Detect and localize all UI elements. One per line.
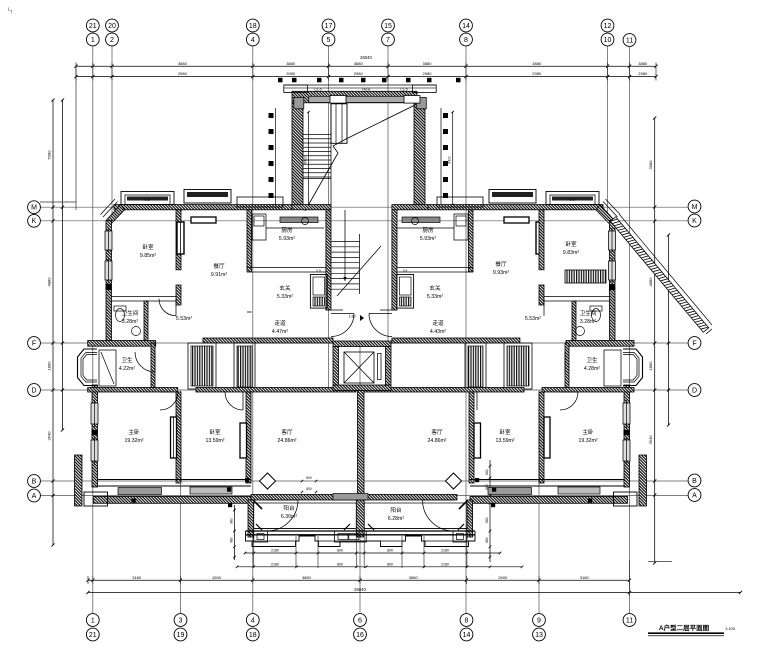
bottom dimension band: [86, 560, 742, 596]
kitchen fixtures left: [252, 214, 324, 240]
room label 5.33m²: [427, 284, 443, 300]
party wall below elevator: [358, 391, 365, 497]
svg-text:21: 21: [89, 23, 97, 30]
room label 13.59m²: [495, 428, 514, 444]
svg-text:F: F: [692, 340, 696, 347]
top dimension band: [74, 55, 657, 210]
wall between living and bed2 right: [469, 392, 481, 483]
svg-text:680: 680: [485, 537, 489, 543]
svg-text:3880: 3880: [354, 61, 364, 66]
svg-text:3880: 3880: [532, 61, 542, 66]
svg-text:M: M: [692, 204, 698, 211]
dining/bedroom divider left: [176, 210, 181, 305]
room label 13.59m²: [205, 428, 224, 444]
svg-text:卫生间: 卫生间: [122, 309, 139, 317]
balcony right: [364, 500, 472, 537]
wardrobe left bedroom: [177, 217, 216, 254]
svg-text:3180: 3180: [580, 575, 590, 580]
svg-text:└┐: └┐: [6, 7, 13, 14]
svg-text:8: 8: [465, 617, 469, 624]
svg-text:D: D: [31, 387, 36, 394]
room label 4.43m²: [430, 319, 446, 335]
closet fixtures left F-D: [188, 343, 255, 390]
svg-text:4.43m²: 4.43m²: [430, 329, 446, 335]
svg-text:D: D: [692, 387, 697, 394]
svg-text:14: 14: [463, 632, 471, 639]
svg-text:F: F: [32, 340, 36, 347]
hall divider left wing: [112, 297, 252, 344]
room label 5.33m²: [277, 284, 293, 300]
window box left kitchen: [237, 197, 318, 223]
svg-text:2980: 2980: [354, 71, 364, 76]
right exterior wall upper: [609, 221, 616, 344]
svg-text:厨房: 厨房: [422, 226, 434, 234]
svg-text:B: B: [32, 478, 37, 485]
D wall: [88, 388, 634, 393]
wall between bed2 and master right: [539, 392, 550, 483]
diagonal ramp wall: [610, 215, 712, 335]
bathroom fixtures left 3.28: [114, 306, 141, 336]
svg-text:680: 680: [485, 469, 489, 475]
bathroom 4.28 walls right: [565, 343, 621, 390]
svg-text:800: 800: [387, 549, 393, 553]
svg-text:19.32m²: 19.32m²: [124, 438, 143, 444]
svg-text:客厅: 客厅: [281, 428, 293, 436]
svg-text:卫生: 卫生: [586, 356, 598, 364]
svg-text:卧室: 卧室: [142, 243, 154, 251]
svg-text:26040: 26040: [354, 587, 366, 592]
svg-text:3640: 3640: [47, 431, 52, 441]
svg-text:15: 15: [384, 23, 392, 30]
svg-text:A: A: [32, 493, 37, 500]
kitchen fixtures right: [396, 214, 468, 240]
svg-text:2980: 2980: [178, 71, 188, 76]
svg-text:C-8: C-8: [144, 198, 149, 202]
window box right kitchen: [402, 197, 483, 223]
svg-text:卧室: 卧室: [565, 240, 577, 248]
svg-text:2: 2: [110, 37, 114, 44]
room label 19.32m²: [124, 428, 143, 444]
A wall right: [470, 455, 647, 506]
right dimension chains: [648, 116, 672, 564]
svg-text:5.93m²: 5.93m²: [420, 236, 436, 242]
svg-text:9: 9: [537, 617, 541, 624]
svg-text:21: 21: [89, 632, 97, 639]
balcony corner braces: [256, 524, 464, 530]
room label 19.32m²: [578, 428, 597, 444]
door arc bath 4.28 right: [564, 352, 566, 372]
svg-text:19: 19: [177, 632, 185, 639]
window box above right bedroom: [546, 192, 599, 205]
room label 4.47m²: [272, 319, 288, 335]
room label 5.93m²: [420, 226, 436, 242]
left bay window F-D: [78, 349, 98, 386]
corner diamond right: [446, 473, 469, 509]
svg-text:B: B: [692, 478, 697, 485]
axis circles left: [28, 201, 41, 502]
svg-text:24.86m²: 24.86m²: [277, 438, 296, 444]
room label 9.91m²: [211, 262, 227, 278]
svg-text:餐厅: 餐厅: [213, 262, 225, 270]
title block: [648, 623, 736, 636]
svg-text:玄关: 玄关: [429, 284, 441, 292]
hall divider right wing: [544, 297, 610, 344]
svg-text:3.28m²: 3.28m²: [580, 319, 596, 325]
svg-text:7: 7: [386, 37, 390, 44]
svg-text:3880: 3880: [178, 61, 188, 66]
lower stair treads center: [331, 210, 381, 296]
svg-text:厨房: 厨房: [281, 226, 293, 234]
svg-text:24.86m²: 24.86m²: [427, 438, 446, 444]
svg-text:3180: 3180: [132, 575, 142, 580]
stairwell inner dim lines: [304, 111, 454, 206]
svg-text:5.93m²: 5.93m²: [279, 236, 295, 242]
corner diamond left: [132, 473, 593, 509]
svg-text:K: K: [692, 218, 697, 225]
right bay window F-D: [623, 349, 643, 386]
top-left corner chamfer: [101, 199, 125, 225]
axis circles bottom: [86, 614, 635, 641]
axis circles top: [86, 19, 635, 46]
F wall left: [88, 338, 333, 346]
svg-text:2980: 2980: [638, 71, 648, 76]
svg-text:1.80: 1.80: [349, 315, 356, 319]
svg-text:2980: 2980: [532, 71, 542, 76]
svg-text:M: M: [31, 205, 37, 212]
svg-text:9.83m²: 9.83m²: [563, 250, 579, 256]
room label 9.93m²: [493, 260, 509, 276]
svg-text:2980: 2980: [423, 71, 433, 76]
svg-text:2600: 2600: [498, 575, 508, 580]
svg-text:13: 13: [535, 632, 543, 639]
room label 4.22m²: [119, 356, 135, 372]
svg-text:4.47m²: 4.47m²: [272, 329, 288, 335]
closet fixtures right F-D: [465, 343, 532, 390]
svg-text:5: 5: [327, 37, 331, 44]
axis circles right: [688, 200, 701, 501]
window box above left bedroom: [121, 192, 174, 205]
svg-text:1880: 1880: [47, 361, 52, 371]
room label 6.30m²: [281, 504, 297, 520]
svg-text:5080: 5080: [47, 150, 52, 160]
svg-text:19.32m²: 19.32m²: [578, 438, 597, 444]
elevator shaft: [333, 341, 391, 391]
svg-text:3: 3: [179, 617, 183, 624]
svg-text:A: A: [692, 492, 697, 499]
balcony door arc right: [423, 500, 454, 531]
svg-text:5400: 5400: [448, 156, 452, 164]
svg-text:17: 17: [325, 23, 333, 30]
kitchen wall left: [247, 210, 326, 272]
svg-text:11: 11: [626, 37, 633, 44]
F wall right: [392, 338, 634, 346]
corridor walls center: [292, 205, 428, 310]
svg-text:6.28m²: 6.28m²: [388, 516, 404, 522]
svg-text:4.28m²: 4.28m²: [584, 366, 600, 372]
svg-text:2600: 2600: [212, 575, 222, 580]
svg-text:餐厅: 餐厅: [495, 260, 507, 268]
svg-text:2180: 2180: [441, 549, 449, 553]
svg-text:2180: 2180: [271, 549, 279, 553]
balcony door arc left: [267, 500, 298, 531]
svg-text:13.59m²: 13.59m²: [205, 438, 224, 444]
door arc dining-hall right: [543, 299, 545, 316]
kitchen wall right: [394, 210, 473, 272]
svg-text:26040: 26040: [360, 55, 372, 60]
dining/bedroom divider right: [539, 210, 544, 305]
balcony left: [248, 500, 356, 537]
svg-text:980: 980: [229, 537, 233, 543]
stairwell window ticks left: [269, 108, 276, 205]
svg-text:走道: 走道: [432, 319, 444, 327]
svg-text:800: 800: [306, 476, 312, 480]
svg-text:9.91m²: 9.91m²: [211, 272, 227, 278]
room label 24.86m²: [277, 428, 296, 444]
room label 24.86m²: [427, 428, 446, 444]
svg-text:2980: 2980: [286, 71, 296, 76]
svg-text:10: 10: [604, 37, 612, 44]
svg-text:6.30m²: 6.30m²: [281, 514, 297, 520]
svg-text:主卧: 主卧: [128, 428, 140, 436]
top-right corner chamfer: [596, 199, 620, 225]
stair upper treads: [303, 104, 331, 207]
svg-text:卧室: 卧室: [499, 428, 511, 436]
door arc dining-hall left: [159, 299, 176, 316]
svg-text:12: 12: [604, 23, 612, 30]
balcony outer molding: [246, 531, 476, 568]
bathroom 4.22 walls left: [99, 343, 155, 390]
svg-text:3.28m²: 3.28m²: [122, 319, 138, 325]
svg-text:4: 4: [251, 617, 255, 624]
svg-text:3880: 3880: [286, 61, 296, 66]
stair block outer walls: [284, 85, 436, 207]
svg-text:13.59m²: 13.59m²: [495, 438, 514, 444]
wall between bed2 and living left: [240, 392, 251, 483]
stair top window band: [284, 88, 436, 104]
svg-text:0.9: 0.9: [403, 269, 408, 273]
B wall left: [97, 480, 251, 495]
room label 6.28m²: [388, 506, 404, 522]
top wall M axis right wing: [428, 205, 603, 210]
svg-text:3880: 3880: [409, 575, 419, 580]
A wall left: [75, 455, 252, 506]
stair duct box: [331, 104, 347, 144]
svg-text:5400: 5400: [304, 156, 308, 164]
svg-text:0.9: 0.9: [316, 269, 321, 273]
svg-text:5.33m²: 5.33m²: [427, 294, 443, 300]
left exterior wall upper: [105, 221, 112, 344]
stairwell window ticks right: [441, 108, 448, 205]
room label 3.28m²: [580, 309, 597, 325]
svg-text:800: 800: [337, 562, 343, 566]
svg-text:卧室: 卧室: [209, 428, 221, 436]
duct boxes beside corridor: [310, 269, 327, 308]
svg-text:4.22m²: 4.22m²: [119, 366, 135, 372]
svg-text:16: 16: [356, 632, 364, 639]
left exterior wall lower: [91, 385, 98, 487]
svg-text:A户型二层平面图: A户型二层平面图: [659, 623, 710, 632]
svg-text:3080: 3080: [648, 160, 653, 170]
svg-text:1: 1: [91, 617, 95, 624]
svg-text:阳台: 阳台: [283, 504, 295, 512]
svg-text:1:100: 1:100: [725, 626, 736, 631]
svg-text:客厅: 客厅: [431, 428, 443, 436]
svg-text:680: 680: [485, 517, 489, 523]
svg-text:C-8: C-8: [569, 198, 574, 202]
room label 5.93m²: [279, 226, 295, 242]
svg-text:卫生: 卫生: [121, 356, 133, 364]
balcony divider: [356, 500, 364, 537]
svg-text:4880: 4880: [648, 277, 653, 287]
wardrobe label right: [565, 270, 606, 283]
center B-A dim marks: [301, 476, 317, 493]
svg-text:14: 14: [462, 23, 470, 30]
svg-text:5.33m²: 5.33m²: [277, 294, 293, 300]
bathroom fixtures right 3.28: [576, 306, 603, 336]
svg-text:3880: 3880: [423, 61, 433, 66]
room label 9.85m²: [140, 243, 156, 259]
svg-text:4: 4: [251, 37, 255, 44]
svg-text:800: 800: [387, 562, 393, 566]
svg-text:4880: 4880: [47, 277, 52, 287]
svg-text:8: 8: [464, 37, 468, 44]
window box left wing second: [184, 190, 231, 204]
svg-text:K: K: [32, 218, 37, 225]
left dimension chains: [40, 98, 76, 546]
stair section diagonal: [305, 105, 415, 211]
svg-text:3640: 3640: [648, 435, 653, 445]
svg-text:9.85m²: 9.85m²: [140, 253, 156, 259]
svg-text:18: 18: [249, 23, 257, 30]
room label 3.28m²: [122, 309, 139, 325]
balcony head wall: [251, 494, 457, 501]
svg-text:20: 20: [108, 23, 116, 30]
svg-text:2180: 2180: [441, 562, 449, 566]
room label 9.83m²: [563, 240, 579, 256]
balcony dimension chains: [229, 460, 523, 568]
svg-text:5.53m²: 5.53m²: [525, 316, 541, 322]
corridor entry doors: [331, 314, 392, 337]
svg-text:800: 800: [337, 549, 343, 553]
door arcs bedrooms: [160, 392, 178, 410]
svg-text:3880: 3880: [302, 575, 312, 580]
svg-text:18: 18: [249, 632, 257, 639]
svg-text:800: 800: [306, 487, 312, 491]
svg-text:2180: 2180: [271, 562, 279, 566]
svg-text:1: 1: [91, 37, 95, 44]
svg-text:6: 6: [358, 617, 362, 624]
svg-text:主卧: 主卧: [582, 428, 594, 436]
svg-text:走道: 走道: [274, 319, 286, 327]
wardrobe right bedroom: [504, 217, 543, 254]
svg-text:980: 980: [229, 518, 233, 524]
window box right wing second: [489, 190, 536, 204]
grid axis lines: [40, 46, 688, 613]
top wall M axis left wing: [114, 205, 292, 210]
B wall right: [470, 480, 624, 495]
right exterior wall lower: [623, 385, 630, 487]
svg-text:玄关: 玄关: [279, 284, 291, 292]
svg-text:11: 11: [626, 617, 633, 624]
wall between master and bed2 left: [171, 392, 182, 483]
door arc bath 4.22 left: [135, 352, 155, 372]
room label 4.28m²: [584, 356, 600, 372]
svg-text:1880: 1880: [648, 361, 653, 371]
svg-text:阳台: 阳台: [390, 506, 402, 514]
svg-text:3880: 3880: [638, 61, 648, 66]
svg-text:卫生间: 卫生间: [580, 309, 597, 317]
svg-text:5.53m²: 5.53m²: [176, 316, 192, 322]
svg-text:9.93m²: 9.93m²: [493, 270, 509, 276]
